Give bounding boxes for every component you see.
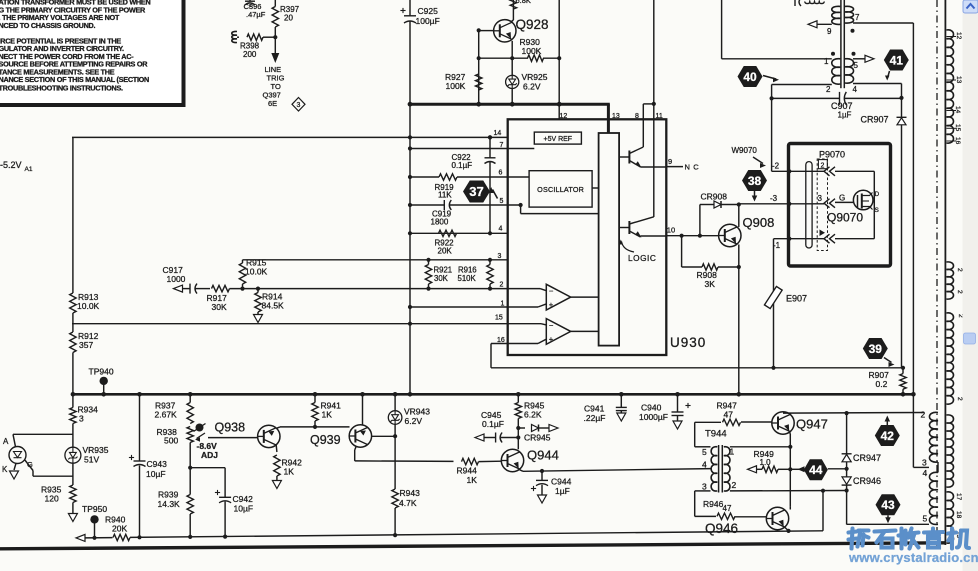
wire Q946 collector xyxy=(789,507,791,510)
wire Q928 base xyxy=(479,30,494,32)
wire pin5 xyxy=(408,200,521,210)
capacitor C396 xyxy=(244,0,266,19)
arrow 40 xyxy=(763,76,779,83)
svg-text:3: 3 xyxy=(498,253,502,260)
svg-text:42: 42 xyxy=(881,429,895,443)
svg-text:+: + xyxy=(549,334,554,343)
wire VR935 bottom xyxy=(72,463,74,485)
wire CR908 riser xyxy=(699,205,701,236)
pin key mark xyxy=(820,230,826,237)
wire T944 pin3 xyxy=(695,491,711,517)
pin7 top xyxy=(853,13,913,23)
svg-text:6.8K: 6.8K xyxy=(516,0,531,5)
svg-text:K: K xyxy=(2,465,8,474)
chevron -1 xyxy=(824,234,835,243)
junction bottom C942 xyxy=(223,535,227,539)
svg-text:2: 2 xyxy=(821,162,825,169)
wire Q947 collector xyxy=(790,413,791,414)
svg-text:Q928: Q928 xyxy=(516,17,549,32)
transformer left winding upper xyxy=(832,6,841,24)
svg-text:.22µF: .22µF xyxy=(584,413,606,423)
resistor R943 xyxy=(392,436,420,535)
wire T944 pin1 xyxy=(730,445,793,449)
wire -1 drop xyxy=(773,239,775,368)
chevron 3 xyxy=(824,199,835,208)
svg-text:6E: 6E xyxy=(268,99,277,108)
resistor R935 xyxy=(41,485,77,522)
svg-text:R939: R939 xyxy=(158,490,179,500)
wire -3 inside xyxy=(789,203,824,205)
svg-text:W9070: W9070 xyxy=(732,146,758,155)
svg-text:CR946: CR946 xyxy=(853,476,881,486)
junction C907 right xyxy=(899,96,903,100)
svg-text:Q939: Q939 xyxy=(310,433,341,447)
wire pin4 xyxy=(408,231,508,235)
svg-text:17: 17 xyxy=(955,493,962,501)
svg-text:47: 47 xyxy=(724,410,734,420)
svg-text:11K: 11K xyxy=(438,191,452,200)
svg-text:1: 1 xyxy=(730,447,735,457)
wire DS rail xyxy=(873,171,875,238)
transistor Q928 xyxy=(494,20,516,42)
bus -5.2V top xyxy=(409,104,610,133)
resistor R945 xyxy=(515,401,544,450)
diode CR945 xyxy=(518,425,558,443)
capacitor C941 xyxy=(584,394,627,423)
resistor R937 xyxy=(155,394,194,423)
pin4 top xyxy=(853,84,902,98)
junction R908 right xyxy=(737,265,741,269)
svg-text:2.67K: 2.67K xyxy=(155,410,178,420)
svg-text:14: 14 xyxy=(954,106,961,114)
svg-text:VR935: VR935 xyxy=(83,445,109,455)
resistor R927 xyxy=(445,72,482,91)
pin 10 label xyxy=(667,226,675,235)
pin5 top xyxy=(853,55,874,70)
wire R921 bottoms xyxy=(426,260,492,291)
junction bottom R943 xyxy=(393,533,397,537)
svg-text:R943: R943 xyxy=(400,488,421,498)
capacitor C940 xyxy=(639,394,691,429)
svg-text:CR908: CR908 xyxy=(701,192,728,202)
label Q928 xyxy=(516,17,549,32)
T944 pin labels xyxy=(702,447,737,492)
resistor R912 xyxy=(70,331,99,353)
transistor Q947 xyxy=(772,412,828,434)
junction pin14 x410 xyxy=(408,135,412,139)
svg-text:6.2V: 6.2V xyxy=(405,416,423,426)
transformer right winding upper xyxy=(845,6,854,23)
T944 left winding xyxy=(711,447,717,491)
wire W9070 xyxy=(732,98,772,171)
junction R949 xyxy=(788,467,792,471)
svg-text:-3: -3 xyxy=(770,194,778,203)
resistor R939 xyxy=(158,490,194,537)
svg-text:10.0K: 10.0K xyxy=(245,267,268,277)
svg-text:44: 44 xyxy=(809,463,823,477)
svg-text:1K: 1K xyxy=(284,467,295,477)
svg-text:4: 4 xyxy=(853,85,858,94)
resistor R913 xyxy=(70,292,100,313)
svg-text:10.0K: 10.0K xyxy=(77,301,100,311)
arrow 37 xyxy=(489,187,498,199)
wire VR925 to bus xyxy=(511,89,513,105)
bus dots xyxy=(71,392,916,397)
pot R938 xyxy=(157,424,206,446)
svg-text:C943: C943 xyxy=(147,459,168,469)
svg-text:Q947: Q947 xyxy=(796,417,828,432)
svg-text:4: 4 xyxy=(702,460,707,470)
resistor R947 xyxy=(695,401,772,426)
svg-text:NCED TO CHASSIS GROUND.: NCED TO CHASSIS GROUND. xyxy=(0,21,96,30)
svg-text:10: 10 xyxy=(667,226,675,235)
rail left border xyxy=(72,137,74,394)
T944 right winding xyxy=(724,447,730,491)
wire Q928 collector xyxy=(512,0,514,22)
svg-text:39: 39 xyxy=(869,342,883,356)
transistor Q946 xyxy=(705,507,789,536)
svg-text:4: 4 xyxy=(499,226,503,233)
top partial cap xyxy=(795,0,801,6)
svg-text:-2: -2 xyxy=(772,162,780,171)
svg-text:6: 6 xyxy=(499,170,503,177)
svg-text:9: 9 xyxy=(827,27,832,36)
resistor R907 xyxy=(869,368,907,395)
transformer right winding lower xyxy=(845,59,854,83)
comparator A xyxy=(546,284,598,310)
resistor R930 xyxy=(479,37,560,61)
svg-text:E907: E907 xyxy=(786,294,807,304)
chevron -2 xyxy=(824,167,835,176)
svg-text:200: 200 xyxy=(243,50,257,59)
svg-text:4.7K: 4.7K xyxy=(399,498,417,508)
junction bus x512 xyxy=(510,102,515,107)
resistor R916 xyxy=(458,265,494,285)
testpoint TP940 xyxy=(89,367,114,395)
svg-text:3: 3 xyxy=(922,458,927,468)
wire hex44 to rail xyxy=(828,467,849,471)
junction pin14 x490 xyxy=(488,135,492,139)
edge winding group5 xyxy=(946,492,962,543)
wire Q946 emitter xyxy=(785,527,791,533)
svg-text:N C: N C xyxy=(685,163,700,172)
wire -3 net xyxy=(739,194,792,206)
resistor R942 xyxy=(272,455,302,489)
svg-text:R944: R944 xyxy=(457,466,478,476)
svg-text:VR925: VR925 xyxy=(522,72,548,82)
wire Q928 emitter xyxy=(511,41,513,75)
junction pin2 R915 xyxy=(240,287,244,291)
wire Q947 emitter xyxy=(789,432,792,507)
svg-text:VR943: VR943 xyxy=(404,407,430,417)
svg-text:R946: R946 xyxy=(703,499,724,509)
svg-text:1800: 1800 xyxy=(431,218,449,227)
arrow 41 xyxy=(885,71,890,81)
transistor Q939 xyxy=(310,425,372,447)
svg-text:5: 5 xyxy=(702,447,707,457)
zener VR935 xyxy=(65,445,109,465)
svg-text:0.1µF: 0.1µF xyxy=(482,419,504,429)
svg-text:3: 3 xyxy=(79,414,84,424)
wire pin7 xyxy=(408,146,534,150)
arrow 43 xyxy=(885,515,891,523)
svg-text:Q908: Q908 xyxy=(743,215,775,230)
resistor R940 label xyxy=(105,515,127,534)
capacitor C922 xyxy=(452,135,496,233)
capacitor C907 xyxy=(770,92,902,120)
T944 core xyxy=(719,445,723,493)
svg-text:20: 20 xyxy=(284,14,293,23)
svg-text:U930: U930 xyxy=(670,335,706,350)
svg-text:S: S xyxy=(875,207,880,214)
svg-text:13: 13 xyxy=(955,76,962,84)
junction bottom C943 xyxy=(137,535,141,539)
pin labels 12 13 8 11 xyxy=(560,113,663,120)
page bottom border xyxy=(0,543,946,549)
svg-text:3: 3 xyxy=(702,482,707,492)
wire C942 branch xyxy=(190,468,225,497)
junction R941 bottom xyxy=(313,425,317,429)
svg-text:C925: C925 xyxy=(418,6,439,16)
wire Q939 emitter xyxy=(355,447,454,462)
svg-text:43: 43 xyxy=(881,498,895,512)
svg-text:1µF: 1µF xyxy=(555,486,570,496)
wire pin16 xyxy=(491,339,546,368)
svg-text:41: 41 xyxy=(890,53,904,67)
label LINE TRIG TO Q397 6E xyxy=(263,65,285,108)
wire emitter riser xyxy=(822,491,824,531)
wire Q938 collector xyxy=(277,427,350,428)
junction VR943 bottom xyxy=(393,434,397,438)
page dashed line xyxy=(936,0,938,546)
resistor R921 xyxy=(425,265,452,285)
wire -1 loop xyxy=(835,238,874,240)
wire pin2 xyxy=(174,284,547,294)
svg-text:9: 9 xyxy=(668,157,672,166)
svg-text:120: 120 xyxy=(45,494,59,504)
pin 9 NC xyxy=(666,157,699,172)
svg-text:7: 7 xyxy=(855,13,860,22)
watermark url xyxy=(848,550,978,565)
rail CR946 bottom xyxy=(847,491,929,525)
rail x410 xyxy=(409,104,411,394)
arrow 42 xyxy=(885,416,891,426)
wire Q939 right xyxy=(372,435,396,437)
transistor Q944 xyxy=(501,448,559,472)
resistor R398 xyxy=(232,31,276,59)
phase dots xyxy=(831,29,856,56)
connector pin column xyxy=(817,159,827,251)
svg-text:C942: C942 xyxy=(233,494,254,504)
junction CR908 out xyxy=(737,202,741,206)
transformer T core xyxy=(841,0,844,88)
wire pin11 feeder xyxy=(653,0,655,217)
wire pin10 xyxy=(666,234,718,238)
hex 41 xyxy=(884,50,909,71)
svg-text:-5.2V: -5.2V xyxy=(0,160,22,170)
wire Q908 collector xyxy=(738,205,740,228)
hex 42 xyxy=(875,425,900,446)
transistor Q908 xyxy=(719,215,775,247)
svg-text:G: G xyxy=(839,194,845,203)
svg-text:2: 2 xyxy=(500,282,504,289)
oscillator box xyxy=(529,171,592,207)
svg-text:2: 2 xyxy=(956,397,963,401)
capacitor C925 xyxy=(400,0,439,104)
label -8.6V ADJ xyxy=(197,441,219,460)
mosfet Q9070 xyxy=(827,190,880,224)
op-amp U930 box xyxy=(508,119,667,355)
pin2 top xyxy=(772,85,832,99)
junction R397/R398 xyxy=(273,35,277,39)
transistor U930 lower xyxy=(619,217,666,238)
edge winding group2 xyxy=(946,262,963,299)
pin 2 box xyxy=(818,160,827,170)
junction bottom R939 xyxy=(188,535,192,539)
svg-text:1K: 1K xyxy=(322,410,333,420)
svg-text:100K: 100K xyxy=(446,81,466,91)
svg-text:14: 14 xyxy=(494,130,502,137)
svg-text:T944: T944 xyxy=(705,429,727,440)
junction pin2 R914 xyxy=(256,287,260,291)
svg-text:1: 1 xyxy=(824,57,829,66)
wire pin1 xyxy=(408,304,546,309)
wire pin14 xyxy=(72,136,508,138)
hex 44 xyxy=(804,459,828,480)
connector slot xyxy=(806,162,812,248)
svg-text:500: 500 xyxy=(164,436,178,446)
svg-text:+5V REF: +5V REF xyxy=(543,136,572,143)
junction C944 xyxy=(540,469,544,473)
capacitor C917 label xyxy=(163,265,186,284)
svg-text:1.0: 1.0 xyxy=(760,458,772,467)
wire R938 wiper xyxy=(208,437,258,439)
testpoint TP950 xyxy=(82,504,107,538)
svg-text:−: − xyxy=(549,287,554,296)
junction CR945 xyxy=(516,426,520,430)
svg-text:20K: 20K xyxy=(112,524,127,534)
thyristor A-K-G xyxy=(2,434,73,479)
junction bus x559 xyxy=(557,102,562,107)
scrollbar track xyxy=(963,0,978,571)
svg-text:6.2V: 6.2V xyxy=(523,82,541,92)
svg-text:100µF: 100µF xyxy=(416,16,440,26)
transistor Q938 xyxy=(215,421,280,448)
svg-text:16: 16 xyxy=(954,137,961,145)
svg-text:C940: C940 xyxy=(641,403,662,413)
right transformer pins xyxy=(921,410,928,524)
junction C945 xyxy=(516,435,520,439)
transistor U930 upper xyxy=(619,147,666,168)
right transformer winding xyxy=(929,412,938,524)
junction pin8 tap xyxy=(652,102,656,106)
svg-text:A: A xyxy=(3,437,9,446)
svg-text:CR945: CR945 xyxy=(524,433,551,443)
junction R930 left xyxy=(477,56,481,60)
pin1 label xyxy=(824,57,829,66)
resistor R914 xyxy=(254,289,285,323)
label U930 xyxy=(670,335,706,350)
resistor 6.8K partial xyxy=(510,0,531,9)
arrow 39 xyxy=(884,358,895,368)
wire R938 to R939 xyxy=(189,443,191,495)
capacitor C944 xyxy=(531,471,572,503)
svg-text:2: 2 xyxy=(732,480,737,490)
wire pin5 internal xyxy=(519,203,599,214)
svg-text:3K: 3K xyxy=(705,279,716,289)
label -5.2V A1 xyxy=(0,160,33,173)
svg-text:LOGIC: LOGIC xyxy=(628,253,656,263)
wire Q938 emitter xyxy=(275,445,278,452)
wire pin12 feeder xyxy=(558,0,560,120)
pin labels left xyxy=(494,130,505,344)
svg-text:TROUBLESHOOTING INSTRUCTIONS.: TROUBLESHOOTING INSTRUCTIONS. xyxy=(0,84,123,93)
zener VR925 xyxy=(506,72,548,92)
svg-text:4: 4 xyxy=(923,468,928,478)
svg-text:3: 3 xyxy=(818,194,823,203)
svg-text:2: 2 xyxy=(956,290,963,294)
junction R938 C942 xyxy=(188,466,192,470)
svg-text:357: 357 xyxy=(79,340,93,350)
svg-text:15: 15 xyxy=(954,124,961,132)
wire Q947 collector net xyxy=(783,411,924,415)
svg-text:0.2: 0.2 xyxy=(876,379,888,389)
scrollbar thumb xyxy=(964,333,976,344)
logic block xyxy=(599,133,620,346)
junction R930 right xyxy=(557,56,561,60)
svg-text:3: 3 xyxy=(297,102,301,109)
svg-text:1µF: 1µF xyxy=(838,111,852,120)
svg-text:OSCILLATOR: OSCILLATOR xyxy=(537,185,584,194)
capacitor C942 xyxy=(215,490,253,537)
wire G xyxy=(835,194,854,203)
svg-text:C941: C941 xyxy=(584,404,605,414)
junction base Q928 xyxy=(477,28,481,32)
+5V REF box xyxy=(534,132,581,144)
hex 40 xyxy=(738,66,763,87)
top partial coil xyxy=(805,2,824,4)
svg-text:37: 37 xyxy=(469,184,483,199)
connector P9070 box xyxy=(789,144,891,267)
svg-text:20K: 20K xyxy=(438,247,453,256)
svg-text:Q944: Q944 xyxy=(527,448,559,463)
hex 39 xyxy=(863,338,888,359)
page border line xyxy=(944,0,946,545)
svg-text:38: 38 xyxy=(748,174,762,188)
svg-text:www.crystalradio.cn: www.crystalradio.cn xyxy=(848,550,978,565)
svg-text:1K: 1K xyxy=(467,475,478,485)
svg-text:30K: 30K xyxy=(434,274,449,283)
svg-text:6.2K: 6.2K xyxy=(524,410,542,420)
svg-text:TP950: TP950 xyxy=(82,504,107,514)
wire pin6 xyxy=(408,175,439,179)
wire Q939 collector xyxy=(362,394,364,425)
svg-text:15: 15 xyxy=(495,315,503,322)
svg-text:G: G xyxy=(27,460,33,469)
transformer T944 label xyxy=(705,429,727,440)
wire osc to logic xyxy=(592,187,599,189)
diode CR946 xyxy=(842,469,881,491)
wire bottom net xyxy=(76,531,823,542)
svg-text:1000: 1000 xyxy=(167,274,186,284)
resistor R934 xyxy=(70,394,98,447)
rail R945 xyxy=(517,394,519,402)
svg-text:C907: C907 xyxy=(831,101,853,111)
svg-text:TP940: TP940 xyxy=(89,367,114,377)
svg-text:51V: 51V xyxy=(84,455,99,465)
transformer left winding lower xyxy=(832,59,841,84)
wire pin2 loop xyxy=(835,170,874,172)
